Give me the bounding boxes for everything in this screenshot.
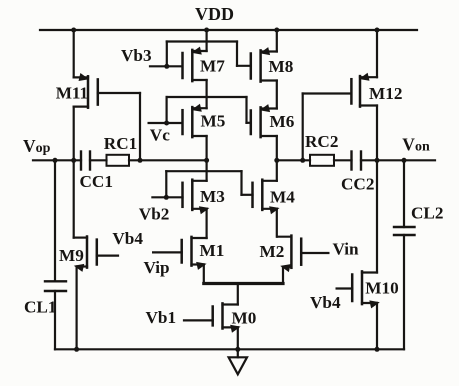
svg-text:M4: M4 — [270, 188, 295, 207]
svg-text:Vin: Vin — [333, 240, 360, 259]
svg-text:M3: M3 — [200, 187, 225, 206]
svg-text:Vb1: Vb1 — [146, 308, 177, 327]
svg-text:Vb4: Vb4 — [112, 229, 143, 248]
svg-text:M11: M11 — [56, 84, 88, 103]
svg-text:CC1: CC1 — [80, 172, 113, 191]
svg-text:M9: M9 — [59, 246, 84, 265]
svg-text:Vb4: Vb4 — [310, 293, 341, 312]
svg-text:RC2: RC2 — [305, 132, 338, 151]
svg-text:M7: M7 — [200, 57, 225, 76]
svg-text:Vip: Vip — [144, 258, 170, 277]
svg-text:CL1: CL1 — [24, 298, 56, 317]
svg-text:M6: M6 — [270, 112, 295, 131]
svg-text:M0: M0 — [232, 308, 257, 327]
svg-text:M5: M5 — [201, 112, 226, 131]
svg-text:Vb3: Vb3 — [121, 46, 152, 65]
svg-text:CL2: CL2 — [411, 204, 443, 223]
svg-text:M2: M2 — [260, 242, 285, 261]
svg-text:M10: M10 — [365, 279, 398, 298]
svg-text:VDD: VDD — [195, 4, 234, 24]
svg-text:RC1: RC1 — [104, 134, 137, 153]
svg-text:CC2: CC2 — [341, 175, 374, 194]
svg-text:M8: M8 — [269, 57, 294, 76]
svg-text:M12: M12 — [369, 84, 402, 103]
svg-text:Vb2: Vb2 — [139, 205, 170, 224]
svg-text:M1: M1 — [200, 241, 225, 260]
svg-text:Vc: Vc — [150, 126, 170, 145]
